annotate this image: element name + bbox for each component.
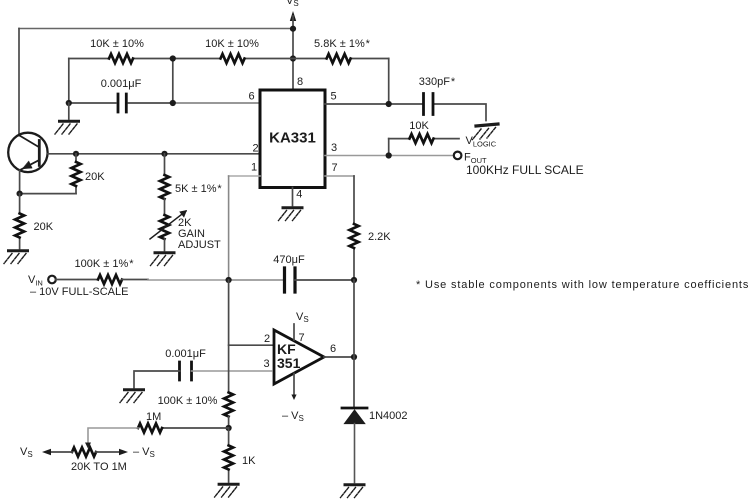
wire VS to op-amp (293, 324, 295, 340)
svg-text:– VS: – VS (133, 446, 155, 459)
resistor R12 1M (162, 427, 229, 429)
resistor R5 2.2K (350, 224, 359, 248)
wire 100K to 1M node (228, 417, 230, 429)
svg-text:* Use stable components with l: * Use stable components with low tempera… (416, 279, 749, 291)
resistor R1 10K +-10% (109, 54, 133, 63)
svg-text:5: 5 (331, 91, 337, 103)
wire pin3 to FOUT (325, 155, 454, 157)
svg-text:0.001μF: 0.001μF (165, 348, 206, 360)
wire node down to pin2 branch (229, 280, 274, 345)
svg-text:20K TO 1M: 20K TO 1M (71, 461, 127, 473)
svg-text:1: 1 (251, 162, 257, 174)
ground under 2K (151, 253, 175, 266)
svg-text:10K ± 10%: 10K ± 10% (205, 38, 259, 50)
svg-text:VS: VS (296, 311, 309, 324)
ground under diode (341, 485, 365, 498)
svg-text:6: 6 (249, 90, 255, 102)
resistor R14 1K (228, 428, 230, 482)
potentiometer R9 2K GAIN ADJUST (160, 215, 169, 239)
wire base to KA331 pin2 (48, 153, 260, 155)
op-amp U1 KA331 box (260, 90, 325, 188)
svg-text:3: 3 (264, 358, 270, 370)
svg-text:0.001μF: 0.001μF (101, 78, 142, 90)
resistor R8 5K +-1% (160, 175, 169, 199)
wire stub to ground (68, 103, 70, 119)
node dot pin3/10K (386, 152, 392, 158)
resistor R11 100K +-10% (224, 393, 233, 417)
svg-text:10K ± 10%: 10K ± 10% (90, 38, 144, 50)
node dot rail/mid-drop (170, 55, 176, 61)
wire wiper (88, 428, 138, 445)
node FOUT terminal circle (454, 152, 462, 160)
resistor R7 20K (left) (19, 194, 21, 249)
svg-text:10K: 10K (409, 120, 429, 132)
node dot 470uF/2.2K (351, 277, 357, 283)
wire cap left to ground (134, 371, 180, 388)
svg-text:2: 2 (253, 143, 259, 155)
capacitor C4 0.001uF (180, 362, 192, 380)
node dot base/5K (161, 151, 167, 157)
wire -VS below op-amp (293, 374, 295, 397)
capacitor C1 0.001uF (118, 94, 126, 112)
node dot top rail / VS (290, 26, 296, 32)
wire pin1 (229, 175, 260, 177)
svg-text:3: 3 (331, 142, 337, 154)
svg-text:8: 8 (297, 76, 303, 88)
wire 10K left drop (388, 139, 390, 156)
transistor Q1 (8, 133, 47, 172)
wire emitter down (19, 170, 21, 193)
svg-text:7: 7 (332, 162, 338, 174)
svg-text:– 10V FULL-SCALE: – 10V FULL-SCALE (30, 286, 128, 298)
svg-text:20K: 20K (34, 221, 54, 233)
wire base node down to 5K (164, 154, 166, 175)
ground under C4 (120, 390, 144, 403)
svg-text:ADJUST: ADJUST (178, 239, 221, 251)
wire cap right to pin3 (192, 370, 273, 372)
wire 2K to ground (164, 239, 166, 251)
svg-text:VS: VS (286, 0, 299, 8)
svg-text:470μF: 470μF (273, 254, 305, 266)
wire cap to node (295, 279, 354, 281)
node -VS right arrow (96, 451, 124, 453)
svg-text:2.2K: 2.2K (368, 231, 391, 243)
ground pin 4 (279, 208, 303, 221)
svg-text:330pF *: 330pF * (419, 76, 456, 88)
ground under R7 (4, 251, 28, 264)
wire mid drop from rail (172, 59, 174, 104)
svg-text:2: 2 (264, 333, 270, 345)
svg-text:KA331: KA331 (269, 130, 316, 147)
node dot cap right (170, 100, 176, 106)
svg-text:4: 4 (296, 189, 302, 201)
svg-text:100KHz FULL SCALE: 100KHz FULL SCALE (466, 163, 584, 177)
wire pin5 to cap (325, 104, 486, 121)
node dot VS / resistor rail (290, 55, 296, 61)
resistor R4 10K (389, 138, 459, 140)
resistor R13 pot 20K TO 1M (72, 448, 96, 457)
svg-text:– VS: – VS (282, 410, 304, 423)
wire op-amp output (324, 356, 354, 358)
wire pin2 node down (228, 345, 230, 392)
node dot base/20K (73, 151, 79, 157)
svg-text:100K ± 10%: 100K ± 10% (158, 395, 218, 407)
node dot output (351, 354, 357, 360)
node dot emitter/20K (17, 191, 23, 197)
resistor R3 5.8K +-1% (327, 54, 351, 63)
ground under 1K (215, 484, 239, 497)
node dot pin5 junction (386, 101, 392, 107)
node dot cap left (66, 100, 72, 106)
wire left vertical to transistor (18, 29, 20, 136)
ground under C1 (55, 121, 79, 134)
svg-text:100K ± 1% *: 100K ± 1% * (75, 258, 135, 270)
resistor R2 10K +-10% (221, 54, 245, 63)
wire pin 4 down (292, 188, 294, 206)
diode D1 1N4002 (342, 407, 367, 410)
svg-text:20K: 20K (85, 171, 105, 183)
capacitor C2 330pF (424, 94, 434, 115)
node dot VIN/pin1 (226, 277, 232, 283)
svg-text:1K: 1K (242, 455, 256, 467)
op-amp U2 KF351 (274, 330, 324, 384)
svg-text:7: 7 (299, 332, 305, 344)
wire pin7 (325, 175, 354, 177)
wire left drop from rail (68, 59, 70, 104)
svg-text:1M: 1M (146, 411, 161, 423)
svg-text:6: 6 (330, 343, 336, 355)
wire output node vertical (353, 280, 355, 407)
capacitor C3 470uF (285, 268, 296, 292)
wire VS vertical down to pin 8 (292, 16, 294, 90)
wire top rail left (19, 28, 293, 30)
resistor R10 100K +-1% (56, 279, 98, 281)
wire diode to ground (354, 424, 356, 483)
svg-text:351: 351 (277, 355, 301, 371)
resistor R6 20K (right) (75, 154, 77, 194)
wire between 5K and 2K (164, 199, 166, 215)
wire 5.8K right drop to pin5 line (388, 59, 390, 105)
svg-text:1N4002: 1N4002 (369, 410, 408, 422)
VLOGIC rail symbol (473, 124, 499, 140)
svg-text:VS: VS (20, 446, 33, 459)
wire pin6 line segments (69, 102, 173, 104)
svg-text:5.8K ± 1% *: 5.8K ± 1% * (314, 38, 371, 50)
node dot 1M junction (226, 425, 232, 431)
wire 100K to node (122, 279, 148, 281)
svg-text:5K ± 1% *: 5K ± 1% * (175, 183, 222, 195)
wire 20K bottom to emitter node (20, 193, 76, 195)
VS arrow up (290, 11, 296, 21)
wire resistor rail segments (69, 58, 389, 60)
